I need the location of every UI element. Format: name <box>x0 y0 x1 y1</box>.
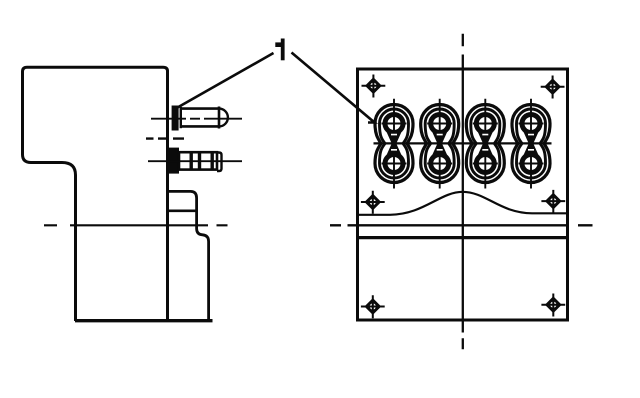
mounting hole bottom-left <box>361 295 385 318</box>
outer contour <box>375 105 413 183</box>
top ring <box>476 115 494 133</box>
top ring <box>431 115 449 133</box>
right view: mid line through terminal waists <box>374 142 552 144</box>
bottom ring <box>431 155 449 173</box>
mounting hole mid-left <box>361 191 385 214</box>
callout leader line left <box>174 53 274 110</box>
top pin: mounting base <box>172 106 179 131</box>
top pin: rounded tip <box>219 109 228 127</box>
right view: bell curve gasket line <box>358 192 568 215</box>
top pin: shaft <box>182 107 220 129</box>
bottom pin: mounting base <box>168 148 180 174</box>
top ring <box>385 115 403 133</box>
crosshair <box>427 99 452 189</box>
left view: horizontal centerline <box>44 224 228 226</box>
hidden dashed line between pins <box>146 137 184 139</box>
bottom pin: body <box>179 152 217 169</box>
callout leader line right <box>292 53 375 123</box>
mounting hole bottom-right <box>541 294 565 317</box>
right view: vertical centerline <box>462 34 464 350</box>
inner contour <box>471 109 500 178</box>
left view: housing bottom edge <box>75 319 213 322</box>
crosshair <box>382 99 407 189</box>
top pin: centerline <box>151 118 242 120</box>
crosshair <box>519 99 544 189</box>
outer contour <box>421 105 459 183</box>
hourglass contact <box>477 131 493 157</box>
bottom pin: centerline <box>148 160 242 162</box>
callout label 1 <box>275 39 284 61</box>
bottom ring <box>385 155 403 173</box>
right view: lower horizontal plate line <box>358 236 568 239</box>
bottom pin: end cap <box>217 153 222 172</box>
inner contour <box>425 109 454 178</box>
crosshair <box>473 99 498 189</box>
bottom ring <box>476 155 494 173</box>
left view: step second line <box>168 210 196 213</box>
bottom pin: body segment lines <box>191 152 212 169</box>
bottom ring <box>522 155 540 173</box>
terminal column 2 <box>421 99 459 189</box>
outer contour <box>512 105 550 183</box>
mounting hole top-left <box>362 75 386 98</box>
inner contour <box>380 109 409 178</box>
terminal column 4 <box>512 99 550 189</box>
hourglass contact <box>432 131 448 157</box>
mounting hole top-right <box>541 76 565 99</box>
top ring <box>522 115 540 133</box>
terminal column 1 <box>375 99 413 189</box>
inner contour <box>517 109 546 178</box>
outer contour <box>466 105 504 183</box>
right view: mounting plate outline <box>358 69 568 320</box>
right view: horizontal centerline with plate line <box>330 224 593 226</box>
hourglass contact <box>386 131 402 157</box>
hourglass contact <box>523 131 539 157</box>
left view: right-side step profile upper line <box>168 191 209 320</box>
terminal column 3 <box>466 99 504 189</box>
mounting hole mid-right <box>541 190 565 213</box>
left view: pump housing outline <box>23 67 168 321</box>
